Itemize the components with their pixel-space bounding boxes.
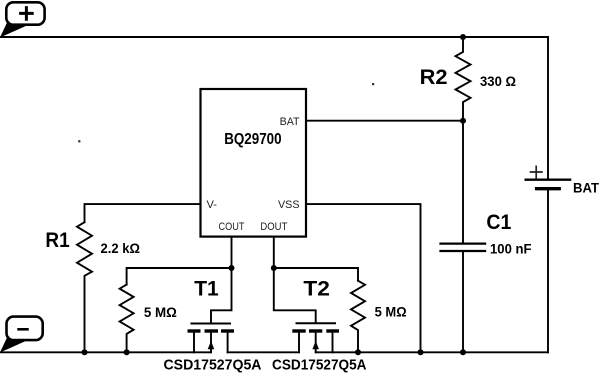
svg-text:BQ29700: BQ29700: [224, 131, 281, 148]
wire: DOUT node down to T2 gate: [274, 268, 316, 322]
label 100 nF: [490, 241, 532, 257]
pin label COUT: [219, 221, 245, 233]
svg-text:CSD17527Q5A: CSD17527Q5A: [272, 356, 367, 373]
svg-text:T2: T2: [303, 278, 330, 301]
pin label VSS: [278, 199, 300, 211]
pin label DOUT: [260, 221, 287, 233]
svg-text:2.2 kΩ: 2.2 kΩ: [101, 240, 141, 256]
wire: battery negative down to bottom rail: [547, 190, 549, 352]
wire: bottom segment T1 drain to T2 drain: [228, 351, 299, 353]
wire: DOUT pin down to node: [273, 237, 275, 268]
label R1: [45, 229, 69, 252]
svg-text:100 nF: 100 nF: [490, 241, 532, 257]
battery BAT: [526, 166, 570, 188]
transistor T1 (CSD17527Q5A NMOS): [188, 324, 235, 353]
label CSD17527Q5A (right): [272, 356, 367, 373]
capacitor C1: [441, 244, 486, 251]
callout: pack negative terminal: [0, 317, 43, 353]
junction: 5M resistor 2 at bottom rail: [355, 349, 361, 355]
resistor R2 with leads: [456, 37, 471, 121]
junction: COUT node: [229, 265, 235, 271]
wire: IC BAT pin to R2 bottom node: [306, 120, 463, 122]
label T2: [303, 278, 330, 301]
wire: bottom rail negative segment (pack - to T1 body): [1, 351, 211, 353]
junction: R1 at bottom rail: [82, 349, 88, 355]
label R2: [420, 66, 448, 89]
IC U1 BQ29700 body: [201, 89, 307, 237]
wire: V- pin left to R1 top: [85, 204, 201, 222]
label CSD17527Q5A (left): [164, 356, 262, 373]
label T1: [194, 278, 219, 301]
speck artifact right: [372, 83, 374, 85]
junction: R2 bottom / BAT pin node: [460, 118, 466, 124]
svg-text:C1: C1: [486, 211, 511, 234]
wire: VSS pin to right then down to bottom rail: [306, 204, 421, 352]
label 2.2 kohm: [101, 240, 141, 256]
junction: R2 top on positive rail: [460, 34, 466, 40]
wire: COUT node down to T1 gate: [211, 268, 232, 323]
wire: bottom rail battery-side segment (T2 source to battery): [316, 351, 548, 353]
pin label V-: [207, 199, 218, 211]
svg-text:5 MΩ: 5 MΩ: [375, 304, 407, 320]
junction: DOUT node: [271, 265, 277, 271]
wire: top positive rail: [1, 36, 548, 38]
junction: 5M resistor 1 at bottom rail: [124, 349, 130, 355]
svg-text:COUT: COUT: [219, 221, 245, 233]
resistor 5 Mohm (T2 gate pulldown): [351, 281, 365, 353]
junction: C1 at bottom rail: [460, 349, 466, 355]
label 5 Mohm (right): [375, 304, 407, 320]
svg-text:R2: R2: [420, 66, 448, 89]
callout: pack positive terminal: [0, 2, 45, 37]
svg-text:V-: V-: [207, 199, 218, 211]
svg-text:DOUT: DOUT: [260, 221, 287, 233]
speck artifact left: [78, 140, 80, 142]
svg-text:BAT: BAT: [573, 180, 599, 196]
svg-text:5 MΩ: 5 MΩ: [144, 304, 177, 320]
svg-text:VSS: VSS: [278, 199, 300, 211]
wire: right rail from top rail to battery positive: [547, 37, 549, 178]
svg-text:CSD17527Q5A: CSD17527Q5A: [164, 356, 262, 373]
svg-text:BAT: BAT: [280, 116, 300, 128]
svg-text:T1: T1: [194, 278, 219, 301]
label 5 Mohm (left): [144, 304, 177, 320]
label 330 ohm: [480, 73, 516, 89]
wire: COUT node left to gate pulldown resistor: [127, 268, 232, 285]
svg-text:330 Ω: 330 Ω: [480, 73, 516, 89]
wire: node down to C1 top plate: [462, 121, 464, 243]
resistor R1: [77, 222, 92, 352]
resistor 5 Mohm (T1 gate pulldown): [120, 285, 134, 353]
wire: COUT pin down to node: [231, 237, 233, 268]
label BQ29700: [224, 131, 281, 148]
svg-text:R1: R1: [45, 229, 69, 252]
label C1: [486, 211, 511, 234]
junction: VSS at bottom rail: [418, 349, 424, 355]
transistor T2 (CSD17527Q5A NMOS): [292, 323, 339, 352]
pin label BAT: [280, 116, 300, 128]
wire: C1 bottom plate down to bottom rail: [462, 252, 464, 352]
battery label BAT: [573, 180, 599, 196]
wire: DOUT node right to gate pulldown resistor: [274, 268, 358, 281]
